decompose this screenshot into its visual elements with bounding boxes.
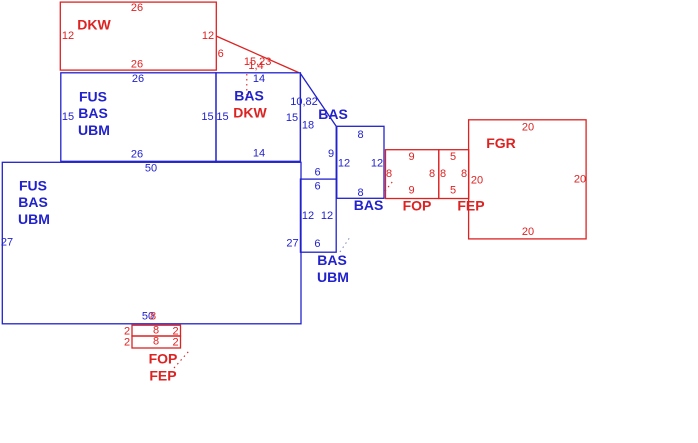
svg-text:9: 9 <box>328 148 334 160</box>
svg-text:15: 15 <box>286 112 298 124</box>
svg-text:14: 14 <box>253 73 265 85</box>
svg-text:1,4: 1,4 <box>248 60 263 72</box>
svg-text:8: 8 <box>150 311 156 323</box>
svg-text:12: 12 <box>371 158 383 170</box>
svg-text:FUS: FUS <box>19 178 47 194</box>
svg-text:27: 27 <box>1 236 13 248</box>
svg-text:26: 26 <box>131 59 143 71</box>
svg-text:26: 26 <box>132 73 144 85</box>
svg-text:8: 8 <box>429 168 435 180</box>
svg-text:FOP: FOP <box>403 198 432 214</box>
svg-text:26: 26 <box>131 149 143 161</box>
svg-text:2: 2 <box>172 337 178 349</box>
svg-text:UBM: UBM <box>78 122 110 138</box>
svg-text:BAS: BAS <box>318 106 348 122</box>
svg-text:DKW: DKW <box>233 105 267 121</box>
svg-text:20: 20 <box>522 122 534 134</box>
svg-text:12: 12 <box>302 210 314 222</box>
svg-text:6: 6 <box>314 166 320 178</box>
svg-text:14: 14 <box>253 148 265 160</box>
svg-text:FUS: FUS <box>79 89 107 105</box>
svg-text:FEP: FEP <box>149 368 176 384</box>
svg-text:FGR: FGR <box>486 135 516 151</box>
svg-text:12: 12 <box>321 210 333 222</box>
svg-text:9: 9 <box>408 151 414 163</box>
svg-text:20: 20 <box>471 175 483 187</box>
svg-text:26: 26 <box>131 2 143 14</box>
svg-text:8: 8 <box>386 168 392 180</box>
svg-text:10,82: 10,82 <box>290 96 318 108</box>
svg-text:BAS: BAS <box>234 88 264 104</box>
svg-text:5: 5 <box>450 151 456 163</box>
svg-text:BAS: BAS <box>317 252 347 268</box>
svg-text:5: 5 <box>450 185 456 197</box>
svg-text:BAS: BAS <box>18 194 48 210</box>
svg-text:15: 15 <box>201 111 213 123</box>
svg-text:2: 2 <box>124 337 130 349</box>
svg-text:FOP: FOP <box>149 351 178 367</box>
svg-text:DKW: DKW <box>77 17 111 33</box>
svg-text:6: 6 <box>218 48 224 60</box>
svg-text:20: 20 <box>574 174 586 186</box>
svg-text:BAS: BAS <box>354 197 384 213</box>
svg-text:12: 12 <box>62 30 74 42</box>
svg-text:8: 8 <box>153 325 159 337</box>
svg-text:6: 6 <box>314 238 320 250</box>
svg-text:50: 50 <box>145 162 157 174</box>
svg-text:UBM: UBM <box>18 211 50 227</box>
svg-text:8: 8 <box>153 336 159 348</box>
svg-text:12: 12 <box>338 158 350 170</box>
svg-text:9: 9 <box>408 185 414 197</box>
svg-text:FEP: FEP <box>457 198 484 214</box>
svg-text:15: 15 <box>216 111 228 123</box>
svg-text:8: 8 <box>440 168 446 180</box>
svg-text:18: 18 <box>302 119 314 131</box>
svg-text:27: 27 <box>286 238 298 250</box>
svg-text:BAS: BAS <box>78 105 108 121</box>
svg-text:6: 6 <box>314 180 320 192</box>
svg-text:8: 8 <box>357 129 363 141</box>
svg-text:12: 12 <box>202 30 214 42</box>
svg-text:8: 8 <box>461 168 467 180</box>
svg-text:UBM: UBM <box>317 269 349 285</box>
svg-text:15: 15 <box>62 111 74 123</box>
svg-text:20: 20 <box>522 226 534 238</box>
